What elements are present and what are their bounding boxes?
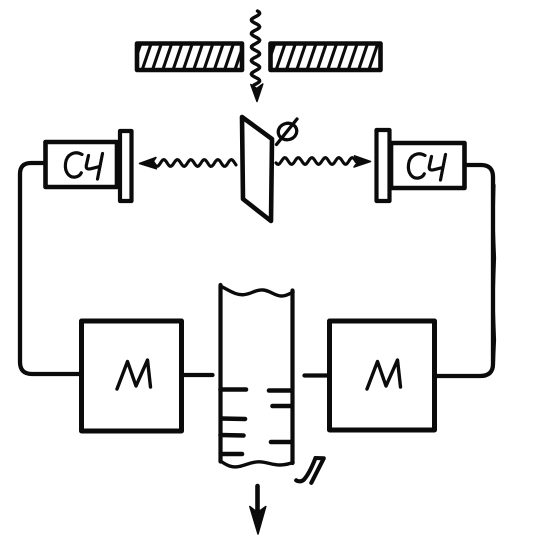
M box left <box>82 321 182 431</box>
label L (tape) <box>296 458 324 483</box>
tape tick marks left group <box>221 390 247 455</box>
wire left counter to left M box <box>20 163 80 374</box>
counter box left <box>46 142 118 187</box>
wire right counter to right M box <box>436 165 495 376</box>
wavy arrow to right counter <box>276 156 371 167</box>
counter box right <box>391 143 465 188</box>
barrier wall left (hatched) <box>132 44 244 71</box>
foil plate <box>242 117 272 221</box>
wavy arrow to left counter <box>140 158 237 169</box>
stub wire tape to right M box <box>305 373 330 377</box>
label M right <box>367 360 401 389</box>
label F (phi) <box>276 119 298 145</box>
tape strip right edge <box>290 291 294 464</box>
tape torn bottom edge <box>221 461 294 467</box>
label Sch left <box>65 153 102 179</box>
stub wire left M box to tape <box>182 373 213 377</box>
counter window plate left <box>120 131 132 201</box>
counter window plate right <box>377 130 390 201</box>
tape motion arrow (bottom) <box>250 486 266 534</box>
label Sch right <box>408 154 445 180</box>
M box right <box>330 321 435 430</box>
tape torn top edge <box>221 286 294 296</box>
label M left <box>117 360 151 389</box>
tape strip left edge <box>218 285 222 462</box>
barrier wall right (hatched) <box>266 44 388 71</box>
incoming photon wavy arrow (top) <box>251 11 263 102</box>
tape tick marks right group <box>269 391 292 443</box>
